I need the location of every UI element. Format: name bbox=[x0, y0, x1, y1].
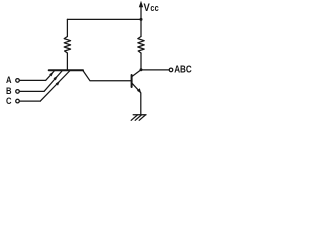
svg-text:A: A bbox=[6, 74, 12, 85]
svg-text:ABC: ABC bbox=[174, 64, 192, 75]
resistor R1 bbox=[64, 37, 70, 54]
input terminal C bbox=[16, 99, 41, 103]
input terminal A bbox=[16, 79, 46, 83]
svg-text:cc: cc bbox=[150, 3, 159, 13]
output terminal circle bbox=[169, 68, 173, 72]
transistor Q2 collector bbox=[132, 70, 141, 76]
svg-text:C: C bbox=[6, 95, 12, 106]
resistor R2 bbox=[138, 37, 144, 54]
ground symbol bbox=[131, 115, 146, 121]
transistor Q1 emitter 2 (input B) bbox=[44, 71, 62, 91]
wire output node to terminal bbox=[141, 69, 169, 71]
svg-text:V: V bbox=[144, 2, 150, 14]
label Vcc bbox=[144, 2, 160, 14]
node junction dot at output bbox=[140, 68, 143, 71]
wire from top rail down to R1 bbox=[66, 19, 68, 36]
power symbol Vcc (arrow up) bbox=[139, 1, 143, 20]
transistor Q1 base bar (multi-emitter input transistor) bbox=[49, 69, 83, 71]
input terminal B bbox=[16, 90, 44, 94]
transistor Q1 collector elbow wire to Q2 base bbox=[83, 71, 131, 81]
node junction dot at Vcc rail bbox=[140, 18, 143, 21]
transistor Q2 base bar bbox=[131, 75, 133, 87]
transistor Q1 emitter 1 (input A) bbox=[46, 71, 55, 80]
wire Q2 emitter to ground bbox=[140, 93, 142, 115]
wire top rail bbox=[67, 18, 141, 20]
wire R1 to Q1 base bar bbox=[66, 53, 68, 69]
wire from Vcc node down to R2 bbox=[140, 19, 142, 36]
wire R2 to output node bbox=[140, 53, 142, 70]
transistor Q2 emitter with arrow bbox=[132, 84, 141, 94]
transistor Q1 emitter 3 (input C) bbox=[40, 71, 69, 101]
